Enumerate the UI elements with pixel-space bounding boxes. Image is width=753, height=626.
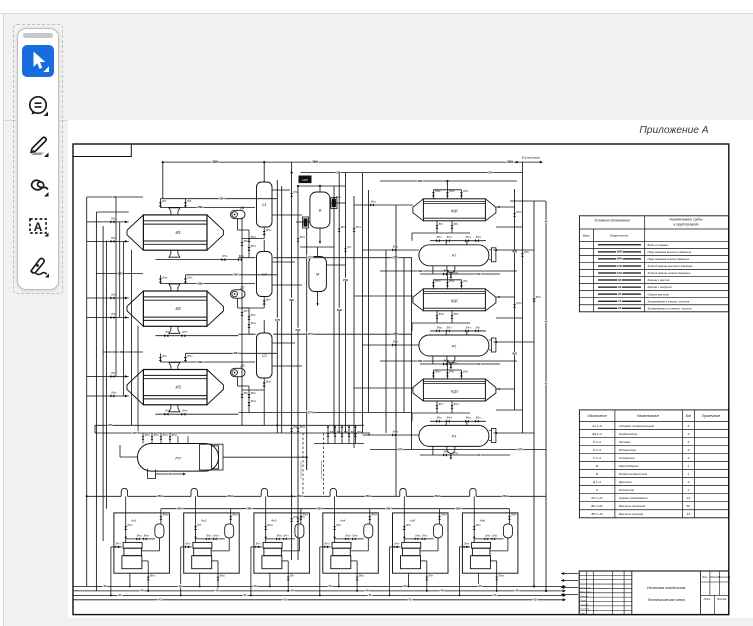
Ап3 outlet to drain <box>282 561 290 592</box>
float regulator Д3 <box>231 364 246 377</box>
РЛ top valve cluster <box>142 433 188 444</box>
Ап5 cooling inlet <box>389 546 401 597</box>
evaporator И3 <box>127 363 223 412</box>
feed line to КД2 <box>354 295 413 297</box>
Ап3 suction drop <box>264 496 267 542</box>
Ап6 cooling inlet <box>458 546 470 597</box>
header 2П along top <box>301 170 523 174</box>
bottom main 41 <box>73 593 566 597</box>
second riser bundle <box>334 173 354 448</box>
separator С1 <box>257 182 273 227</box>
РЛ surrounding box <box>200 444 224 470</box>
М vessel piping <box>300 247 345 306</box>
Ап3 cooling inlet <box>250 546 262 597</box>
air separator В <box>310 192 330 228</box>
separator С2 <box>257 252 273 297</box>
condenser КД2 <box>413 289 496 311</box>
right riser 40 return <box>532 201 536 588</box>
Ап1 oil separator <box>155 524 164 538</box>
Ап5 internal piping <box>404 518 438 551</box>
compressor Ап2 <box>192 542 212 568</box>
Ап2 internal piping <box>196 518 230 551</box>
РТ level gauge <box>489 248 496 262</box>
svg-text:A: A <box>34 220 43 234</box>
evaporator И2 <box>127 284 223 333</box>
left ladder riser a <box>119 222 121 318</box>
gauge Д1 stem <box>238 219 251 258</box>
gauge Д2 stem <box>238 298 251 334</box>
condenser КД3 <box>413 379 496 401</box>
КД1 to РТ droppers <box>412 221 486 245</box>
valves on КД1 top <box>432 190 463 199</box>
left ladder riser b <box>123 241 125 396</box>
float regulator Д2 <box>231 286 246 299</box>
Р2 outlet piping <box>420 356 500 366</box>
37П collection line И3 <box>239 410 413 414</box>
Ап2 cooling inlet <box>180 546 192 597</box>
text box tool <box>22 210 54 242</box>
И1 bottom outlet line 37П <box>155 257 242 261</box>
lines НЗ РЛ to К <box>95 423 364 435</box>
collector К manifold <box>300 425 371 444</box>
Ап3 internal piping <box>266 518 300 551</box>
feed line to КД1 <box>354 203 413 206</box>
И1 left inlets <box>101 220 128 243</box>
Ап6 internal piping <box>474 518 508 551</box>
right riser 36В <box>512 189 518 410</box>
compressor unit Ап4 enclosure <box>323 513 379 573</box>
receiver Р2 <box>419 335 489 356</box>
Ап5 outlet to drain <box>421 561 429 592</box>
37П collection line И2 <box>239 332 413 336</box>
В vessel piping <box>296 186 345 244</box>
Ап4 discharge riser <box>368 509 371 524</box>
Ап6 outlet to drain <box>490 561 498 592</box>
Ап6 drain to main <box>477 573 479 587</box>
oil collector М <box>309 257 327 292</box>
small box at В left bottom <box>303 217 309 228</box>
receiver right-end connections <box>493 206 534 434</box>
Ап1 cooling inlet <box>110 546 122 597</box>
Ап1 drain to main <box>129 573 131 587</box>
condenser КД1 <box>413 199 496 221</box>
И2 cap drain <box>137 326 139 433</box>
Ап5 discharge riser <box>438 509 441 524</box>
valve identification labels <box>111 190 541 577</box>
top header 36Н to atmosphere <box>163 156 543 164</box>
compressor unit Ап1 enclosure <box>114 513 169 573</box>
Ап2 oil separator <box>225 524 234 538</box>
atmosphere riser drop <box>510 162 546 201</box>
РЛ to risers link <box>223 457 307 470</box>
Р3 bottom nozzle <box>447 446 455 459</box>
РТ outlet piping <box>420 266 500 276</box>
valves on КД2 top <box>432 280 463 289</box>
Р2 level gauge <box>489 338 496 352</box>
Ап1 discharge riser <box>159 509 162 524</box>
РЛ left stub <box>120 445 138 457</box>
compressor Ап1 <box>122 542 142 568</box>
left bus taps to И2 <box>87 271 143 317</box>
annotation toolbar <box>13 24 63 294</box>
КД3 top header riser <box>380 359 517 370</box>
И1 cap drain <box>131 250 133 426</box>
compressor unit Ап3 enclosure <box>254 513 310 573</box>
РТ bottom nozzle <box>447 266 455 279</box>
Ап2 suction drop <box>194 496 197 542</box>
float regulator Д1 <box>231 206 246 219</box>
КД2 to Р2 droppers <box>412 311 486 335</box>
compressor unit Ап2 enclosure <box>184 513 240 573</box>
valves on И1 top nozzles <box>159 199 187 208</box>
left bus taps to И1 <box>87 195 143 242</box>
Ап2 discharge riser <box>229 509 232 524</box>
instrument box on В <box>299 176 311 183</box>
Ап1 suction drop <box>124 496 127 542</box>
Ап3 discharge riser <box>299 509 302 524</box>
Ап5 suction drop <box>403 496 406 542</box>
signature tool <box>22 250 54 282</box>
receiver Р3 <box>419 425 489 446</box>
gauge Д3 stem <box>238 377 251 413</box>
application canvas background <box>0 0 753 14</box>
Ап5 oil separator <box>434 524 443 538</box>
compressor unit Ап5 enclosure <box>393 513 449 573</box>
И3 left inlets <box>101 375 128 398</box>
right riser 42 <box>544 201 548 592</box>
mid riser bundle at КД tips <box>386 205 412 496</box>
discharge collection header 37П lower <box>370 447 546 451</box>
bottom main 40 (cooling water) <box>73 584 566 588</box>
С3 connections <box>240 320 302 425</box>
Ап4 internal piping <box>335 518 369 551</box>
separator С3 <box>257 333 273 378</box>
dashed utility line 2 with note <box>321 433 324 495</box>
Ап3 oil separator <box>295 524 304 538</box>
title block (main inscription) <box>579 571 730 615</box>
right riser 40 supply <box>521 201 523 433</box>
lasso tool <box>22 170 54 202</box>
Р3 level gauge <box>489 428 496 442</box>
dashed utility line 1 with note <box>301 433 304 495</box>
Ап4 drain to main <box>338 573 340 587</box>
valves on И3 top nozzles <box>159 354 187 363</box>
С1 connections <box>240 162 302 425</box>
valves on И2 top nozzles <box>159 275 187 284</box>
drawing sheet frame <box>73 144 729 615</box>
equipment list table <box>579 410 728 518</box>
Ап6 suction drop <box>473 496 476 542</box>
Ап1 internal piping <box>126 518 160 551</box>
Ап2 drain to main <box>199 573 201 587</box>
compressor Ап5 <box>401 542 421 568</box>
Р3 feed line <box>363 433 419 436</box>
compressor unit Ап6 enclosure <box>462 513 518 573</box>
comment tool <box>22 90 54 122</box>
legend table: pipe line designations <box>579 216 728 312</box>
select tool (active) <box>22 45 54 77</box>
И3 bottom outlet line 37П <box>155 412 238 416</box>
РЛ level gauge box <box>212 446 219 469</box>
evaporator И1 <box>127 208 223 257</box>
Ап6 discharge riser <box>508 509 511 524</box>
РЛ bottom drain arrow <box>156 472 187 476</box>
left bus riser 1 <box>86 197 88 586</box>
bottom main 40 return <box>73 588 566 592</box>
valves on КД3 top <box>432 370 463 379</box>
riser from И1 top to header <box>160 162 162 199</box>
highlighter tool <box>22 130 54 162</box>
И2 bottom outlet line 37П <box>155 334 238 338</box>
Р3 outlet piping <box>420 446 510 456</box>
С2 connections <box>240 240 302 316</box>
Ап2 outlet to drain <box>212 561 220 592</box>
Ап6 oil separator <box>503 524 512 538</box>
Ап4 cooling inlet <box>319 546 331 597</box>
document page <box>68 120 753 618</box>
Р2 bottom nozzle <box>447 356 455 369</box>
И2 left inlets <box>101 296 128 319</box>
37П collection line И1 <box>239 255 413 259</box>
И1 top header 36В <box>160 196 277 209</box>
Ап5 drain to main <box>408 573 410 587</box>
Ап3 drain to main <box>269 573 271 587</box>
Ап1 outlet to drain <box>142 561 150 592</box>
РТ feed from И1 line <box>363 173 419 433</box>
Ап4 outlet to drain <box>351 561 359 592</box>
left ladder riser c <box>115 197 117 377</box>
receiver РТ <box>419 245 489 266</box>
left bus riser 2 <box>95 212 97 591</box>
small heater coil box at В right <box>331 198 337 209</box>
compressor Ап3 <box>262 542 282 568</box>
central riser bundle <box>274 162 306 560</box>
bottom main 42 <box>73 597 566 601</box>
left bus taps to И3 <box>87 350 143 396</box>
compressor Ап6 <box>470 542 490 568</box>
left bus riser 4 <box>105 241 107 509</box>
КД2 top header riser <box>380 269 517 280</box>
compressor Ап4 <box>331 542 351 568</box>
misc valves on risers <box>290 193 535 522</box>
Ап4 oil separator <box>364 524 373 538</box>
feed line to КД3 <box>354 387 413 389</box>
РЛ bottom nozzle <box>148 469 156 479</box>
Ап4 suction drop <box>333 496 336 542</box>
КД1 top header riser <box>380 179 517 190</box>
suction manifold 36Н with loop seals <box>87 488 546 498</box>
И2 top header <box>160 272 277 285</box>
left bus riser 3 <box>102 226 104 541</box>
frame top-left stamp box <box>73 144 131 157</box>
discharge header 36Н into units <box>161 506 510 510</box>
И3 top header <box>160 351 277 364</box>
drainage receiver РЛ <box>138 444 219 472</box>
Р2 feed line <box>363 343 419 346</box>
КД3 to Р3 droppers <box>412 401 486 425</box>
inlet arrows left of title block <box>561 573 578 575</box>
